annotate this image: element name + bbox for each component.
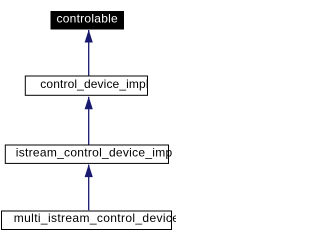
inheritance arrow control_device_impl -> controlable (85, 30, 93, 76)
class box controlable (base class, black) (51, 11, 125, 30)
inheritance arrow istream_control_device_impl -> control_device_impl (85, 97, 93, 145)
class box control_device_impl (25, 76, 148, 95)
svg-text:controlable: controlable (57, 12, 119, 26)
svg-text:istream_control_device_imp: istream_control_device_imp (16, 145, 173, 159)
class box istream_control_device_impl (text clipped) (5, 145, 172, 163)
inheritance arrow multi_istream_control_device -> istream_control_device_impl (85, 164, 93, 210)
svg-text:multi_istream_control_device: multi_istream_control_device (14, 211, 176, 225)
svg-text:control_device_impl: control_device_impl (40, 77, 148, 91)
class box multi_istream_control_device (text clipped at image edge) (2, 211, 180, 230)
